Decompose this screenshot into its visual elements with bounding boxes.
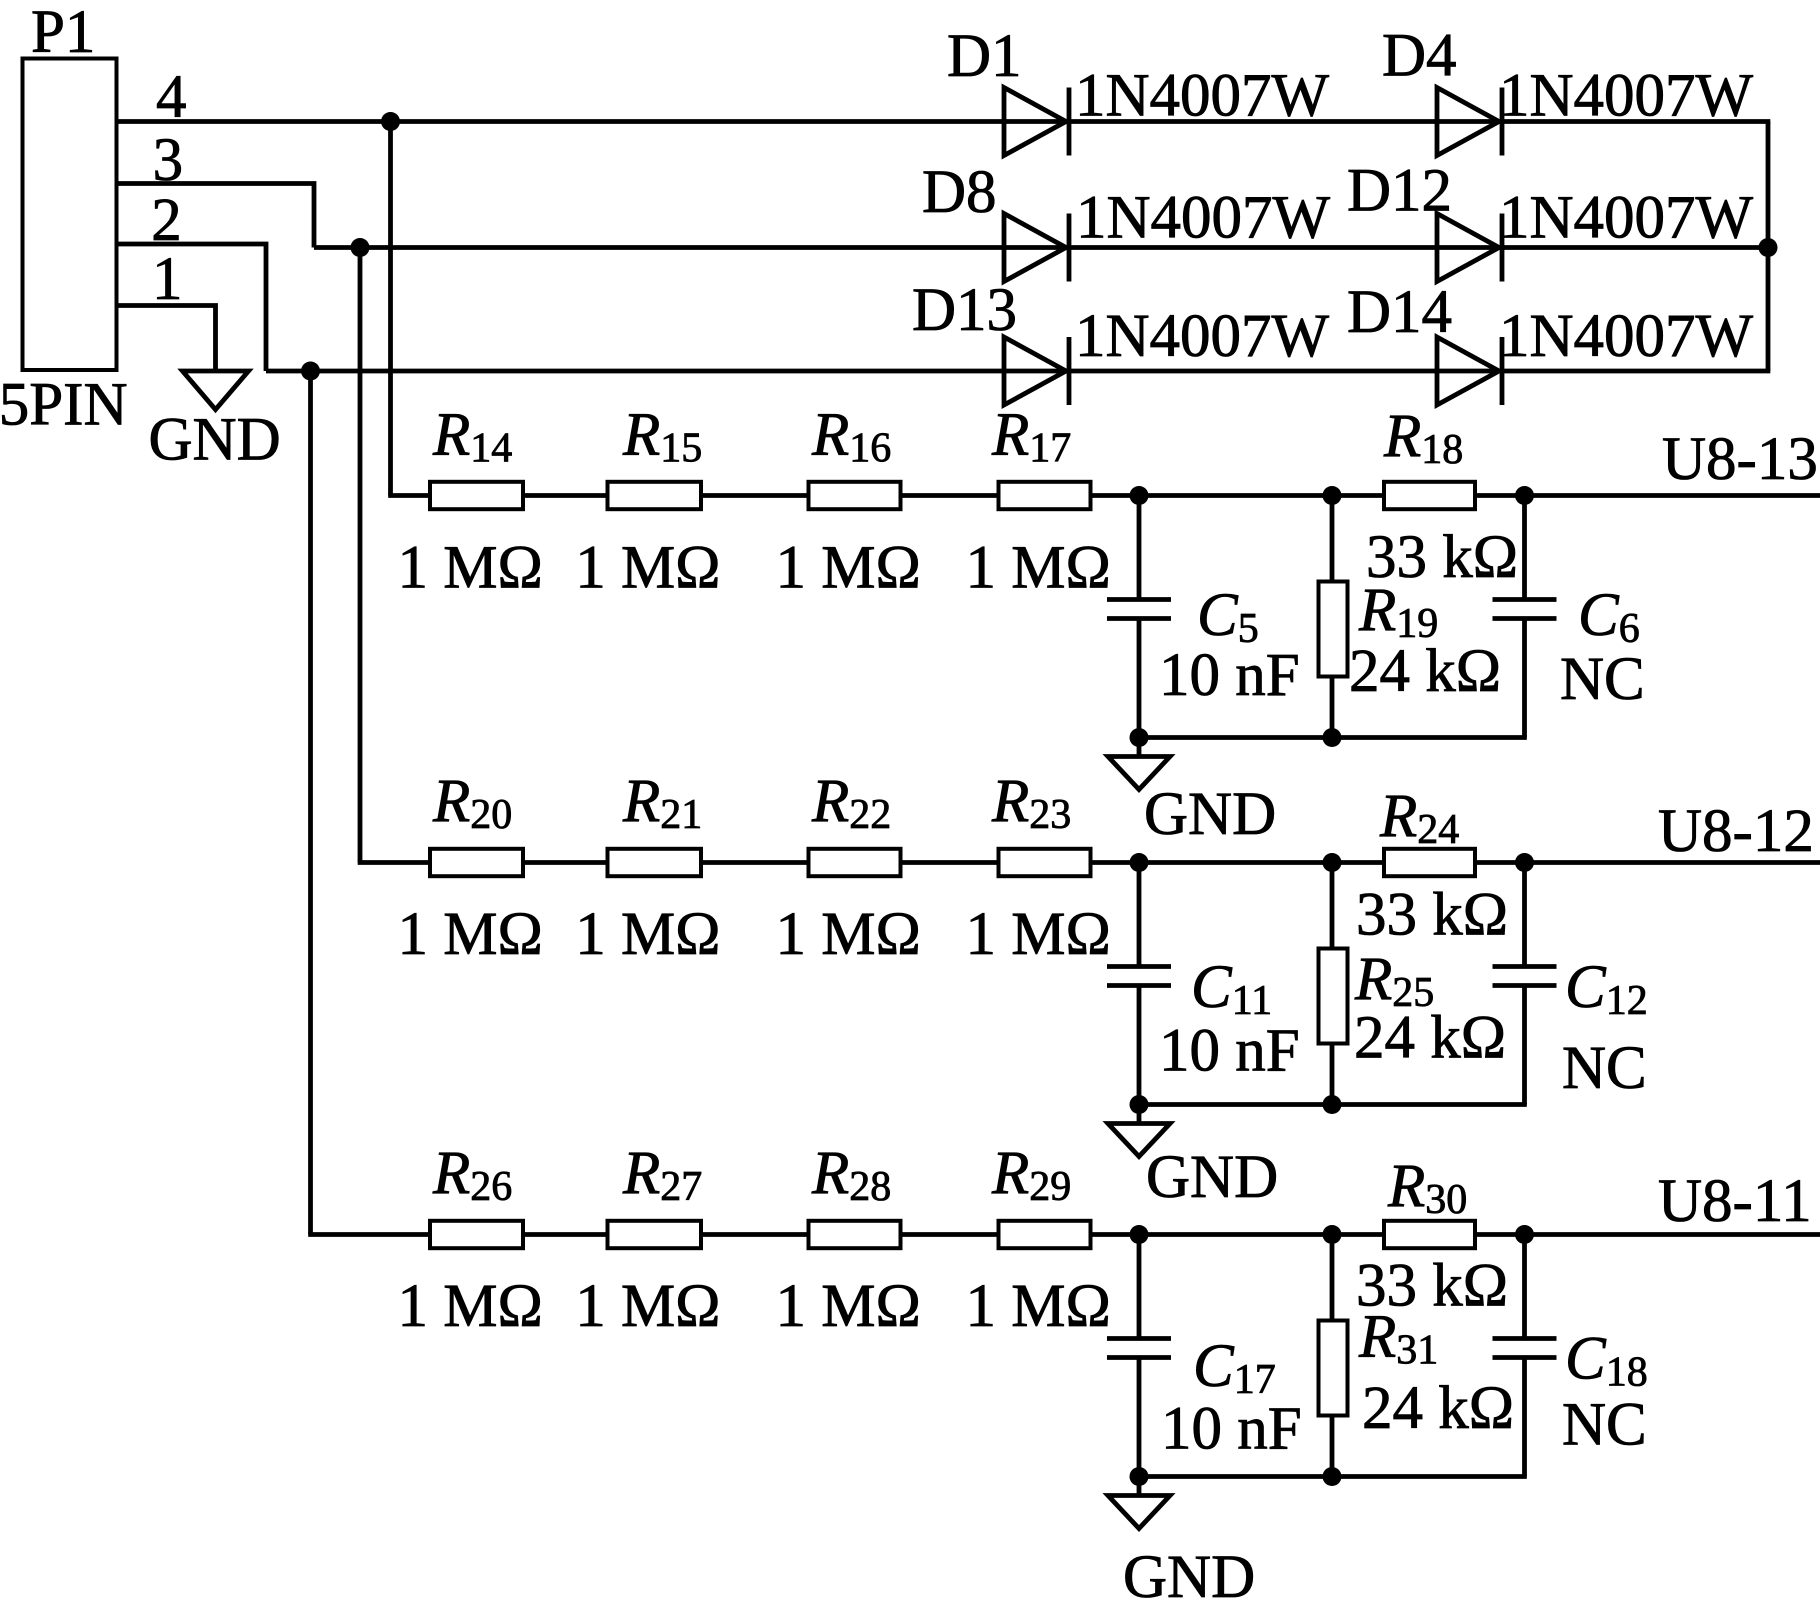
diode D12 [1437,214,1502,282]
svg-text:10 nF: 10 nF [1161,1396,1302,1463]
svg-text:GND: GND [149,407,281,474]
svg-text:R22: R22 [811,768,891,838]
resistor R23 [999,849,1091,876]
diode D4 [1437,88,1502,156]
ground P1 [183,371,249,410]
wire rail row1 [391,119,1771,124]
node node row1 gnd [1130,728,1149,747]
wire row1 ladder rail [388,493,1820,498]
svg-text:R16: R16 [811,402,891,472]
svg-text:1N4007W: 1N4007W [1076,185,1331,252]
svg-text:D13: D13 [912,277,1017,344]
svg-text:R28: R28 [811,1140,891,1210]
wire row2 bottom rail [1139,1102,1527,1107]
node node row1 C [1515,486,1534,505]
resistor R22 [809,849,901,876]
node node row1 B [1323,486,1342,505]
svg-text:GND: GND [1146,1144,1278,1211]
wire row2 ladder rail [358,860,1820,865]
svg-text:1N4007W: 1N4007W [1075,303,1330,370]
svg-text:R29: R29 [991,1140,1071,1210]
svg-text:C18: C18 [1565,1326,1648,1396]
wire row3 bottom rail [1139,1474,1527,1479]
svg-text:GND: GND [1144,781,1276,848]
svg-text:2: 2 [151,187,182,254]
svg-text:1 MΩ: 1 MΩ [398,535,543,602]
svg-text:GND: GND [1123,1544,1255,1611]
connector P1 [23,59,117,371]
node node row3 gnd [1130,1467,1149,1486]
node node row2 gnd [1130,1095,1149,1114]
svg-text:R26: R26 [432,1140,512,1210]
svg-text:24 kΩ: 24 kΩ [1349,638,1501,705]
resistor R17 [999,482,1091,509]
svg-text:R27: R27 [622,1140,702,1210]
svg-text:R21: R21 [622,768,702,838]
svg-text:P1: P1 [31,0,95,66]
capacitor C6 [1493,496,1557,738]
wire right bus [1766,122,1771,372]
node node row1 A [1130,486,1149,505]
svg-text:R15: R15 [622,402,702,472]
svg-text:24 kΩ: 24 kΩ [1354,1005,1506,1072]
wire pin 1 [117,306,216,372]
svg-text:R17: R17 [991,402,1071,472]
svg-text:D12: D12 [1347,158,1452,225]
capacitor C18 [1493,1235,1557,1477]
svg-text:1N4007W: 1N4007W [1499,185,1754,252]
diode D14 [1437,337,1502,405]
node junction rail3 tap [301,362,320,381]
svg-text:NC: NC [1562,1392,1647,1459]
resistor R20 [430,849,523,876]
node node row3 C [1515,1225,1534,1244]
resistor R19 [1319,496,1348,738]
resistor R31 [1319,1235,1348,1477]
ground row2 [1137,1105,1142,1124]
svg-text:1N4007W: 1N4007W [1499,63,1754,130]
node node row2 C [1515,853,1534,872]
svg-text:1 MΩ: 1 MΩ [776,901,921,968]
node node row2 D [1323,1095,1342,1114]
svg-text:33 kΩ: 33 kΩ [1356,882,1508,949]
svg-text:1 MΩ: 1 MΩ [575,901,720,968]
wire rail row3 [266,369,1770,374]
svg-text:1 MΩ: 1 MΩ [776,1273,921,1340]
node node row3 B [1323,1225,1342,1244]
svg-text:D14: D14 [1347,279,1452,346]
svg-text:10 nF: 10 nF [1159,1018,1300,1085]
capacitor C5 [1107,496,1171,738]
resistor R30 [1384,1221,1475,1248]
node node row2 A [1130,853,1149,872]
wire tap row2 [358,248,363,863]
svg-text:1: 1 [152,246,183,313]
svg-text:10 nF: 10 nF [1159,642,1300,709]
svg-text:24 kΩ: 24 kΩ [1362,1375,1514,1442]
wire row3 ladder rail [308,1232,1820,1237]
ground row3 [1137,1477,1142,1496]
svg-text:U8-13: U8-13 [1662,426,1818,493]
svg-text:NC: NC [1560,646,1645,713]
node node row3 D [1323,1467,1342,1486]
diode D1 [1004,88,1069,156]
svg-text:1 MΩ: 1 MΩ [966,901,1111,968]
svg-text:R23: R23 [991,768,1071,838]
node junction rail1 tap [381,112,400,131]
svg-text:C12: C12 [1565,954,1648,1024]
wire tap row1 [388,122,393,496]
resistor R25 [1319,863,1348,1105]
wire pin 2 [117,244,267,371]
svg-text:1N4007W: 1N4007W [1499,303,1754,370]
resistor R26 [430,1221,523,1248]
svg-text:R20: R20 [432,768,512,838]
wire tap row3 [308,371,313,1235]
svg-text:4: 4 [156,64,187,131]
wire pin 3 [117,184,315,248]
node junction rail2 tap [351,238,370,257]
capacitor C17 [1107,1235,1171,1477]
resistor R16 [809,482,901,509]
svg-text:1 MΩ: 1 MΩ [575,535,720,602]
resistor R29 [999,1221,1091,1248]
svg-text:R30: R30 [1387,1153,1467,1223]
node junction bus [1759,238,1778,257]
resistor R27 [608,1221,702,1248]
svg-text:R18: R18 [1383,403,1463,473]
diode D8 [1004,214,1069,282]
wire pin 4 [117,119,391,124]
svg-text:D1: D1 [947,23,1022,90]
svg-text:1 MΩ: 1 MΩ [966,535,1111,602]
svg-text:1 MΩ: 1 MΩ [776,535,921,602]
svg-text:C17: C17 [1193,1333,1276,1403]
svg-text:D8: D8 [922,159,997,226]
svg-text:C6: C6 [1578,582,1640,652]
svg-text:D4: D4 [1382,23,1457,90]
wire row1 bottom rail [1139,735,1527,740]
svg-text:1N4007W: 1N4007W [1075,63,1330,130]
svg-text:1 MΩ: 1 MΩ [398,901,543,968]
resistor R14 [430,482,523,509]
resistor R28 [809,1221,901,1248]
diode D13 [1004,337,1069,405]
svg-text:5PIN: 5PIN [0,372,127,439]
svg-text:C11: C11 [1191,954,1272,1024]
svg-text:1 MΩ: 1 MΩ [575,1273,720,1340]
node node row2 B [1323,853,1342,872]
svg-text:NC: NC [1562,1035,1647,1102]
svg-text:U8-11: U8-11 [1658,1168,1812,1235]
svg-text:1 MΩ: 1 MΩ [966,1273,1111,1340]
node node row1 D [1323,728,1342,747]
svg-text:U8-12: U8-12 [1658,798,1814,865]
svg-text:R24: R24 [1379,783,1459,853]
capacitor C12 [1493,863,1557,1105]
svg-text:3: 3 [153,127,184,194]
resistor R24 [1384,849,1475,876]
resistor R18 [1384,482,1475,509]
svg-text:1 MΩ: 1 MΩ [398,1273,543,1340]
node node row3 A [1130,1225,1149,1244]
capacitor C11 [1107,863,1171,1105]
wire rail row2 [314,245,1768,250]
resistor R21 [608,849,702,876]
resistor R15 [608,482,702,509]
svg-text:R14: R14 [432,402,512,472]
ground row1 [1137,738,1142,757]
